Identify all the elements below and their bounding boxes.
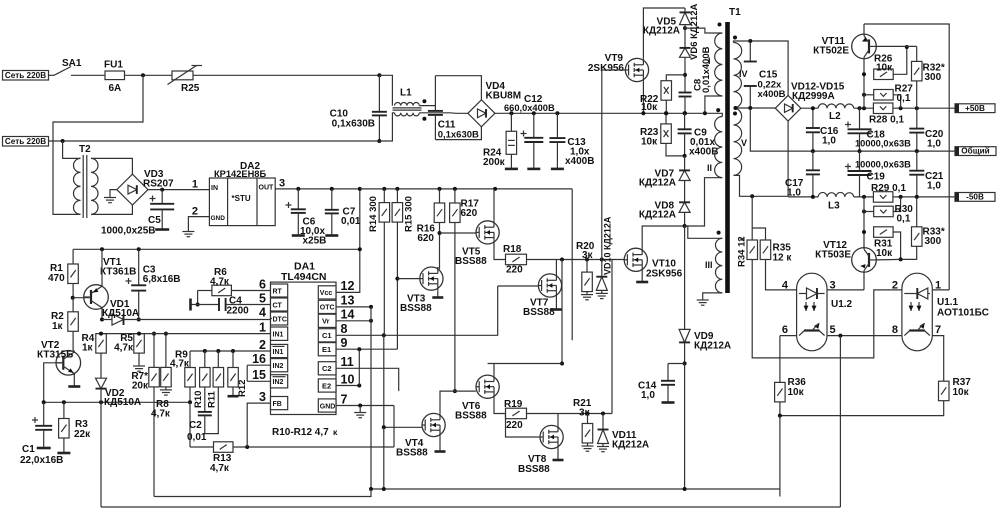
wire windings center tap row xyxy=(734,107,776,109)
wire row to VD11 xyxy=(602,414,604,430)
wire VD3 left vertex to ground xyxy=(110,190,117,194)
svg-text:x400В: x400В xyxy=(758,89,786,100)
svg-text:7: 7 xyxy=(935,324,941,336)
label VT7 BSS88 xyxy=(523,298,555,319)
wire R5 to ground xyxy=(138,353,140,362)
DA1 pin number 1 xyxy=(259,320,266,334)
wire bus down to VT6 drain row xyxy=(561,260,563,364)
wire VT5 drain to rail xyxy=(493,189,495,221)
diode VD6 КД212А xyxy=(680,48,691,57)
resistor R28 0,1 xyxy=(873,103,893,114)
common bar below VT3 xyxy=(432,296,443,299)
wire VD2 to node row xyxy=(100,389,102,403)
wire VT11 base to R32 riser xyxy=(876,45,916,47)
wire C2 bottom to R11 bottom xyxy=(205,387,219,434)
label T1 xyxy=(729,7,741,18)
common bar below R3 xyxy=(57,452,70,455)
wire VT1 collector down xyxy=(101,308,103,320)
transistor VT8 BSS88 xyxy=(540,425,563,448)
junction VT12 base node xyxy=(899,257,903,261)
label L2 xyxy=(829,111,841,122)
junction R23 top xyxy=(664,111,668,115)
label VT2 КТ315Б xyxy=(37,340,73,361)
optocoupler U1.1 body xyxy=(902,273,932,351)
label R35 12к xyxy=(773,243,793,264)
svg-text:КТ315Б: КТ315Б xyxy=(37,350,73,361)
junction R15 xyxy=(395,187,399,191)
wire to R10 xyxy=(204,351,206,368)
label VT1 КТ361В xyxy=(100,257,136,278)
wire R4 to VD2 xyxy=(100,353,102,378)
svg-text:4: 4 xyxy=(259,305,266,319)
wire jog to L1 lower xyxy=(379,113,394,141)
label C20 1,0 xyxy=(925,129,944,150)
capacitor C10 0,1x630В xyxy=(372,75,387,141)
wire VT2 emitter down xyxy=(73,374,75,386)
svg-text:BSS88: BSS88 xyxy=(455,256,487,267)
svg-text:1000,0x25В: 1000,0x25В xyxy=(101,226,156,237)
label VD6 КД212А (rotated) xyxy=(689,3,700,60)
svg-text:КД2999А: КД2999А xyxy=(792,91,835,102)
ground at DA2 pin 2 xyxy=(182,228,194,237)
junction R36 bottom riser xyxy=(778,414,782,418)
label R12 (rotated) xyxy=(237,380,248,397)
junction C1 xyxy=(42,400,46,404)
wire AC2 to C10 xyxy=(49,140,380,142)
junction VD9 line on bus xyxy=(683,487,687,491)
label C10 0,1x630В xyxy=(330,109,375,130)
svg-text:1к: 1к xyxy=(82,343,94,354)
svg-text:T1: T1 xyxy=(729,7,741,18)
transformer T1 winding II xyxy=(715,117,723,178)
label R14 300 (rotated) xyxy=(368,196,379,232)
label VT8 BSS88 xyxy=(518,454,550,475)
svg-text:T2: T2 xyxy=(79,144,91,155)
wire row to R20 xyxy=(586,260,588,273)
junction R27 left xyxy=(862,93,866,97)
wire R34/R35 tops tie xyxy=(752,228,765,240)
wire VT7 drain up xyxy=(555,260,557,275)
junction R12 top xyxy=(231,349,235,353)
transistor VT11 КТ502Е (pnp) xyxy=(852,34,877,59)
wire AC1 tap down to T2 primary bottom xyxy=(53,75,143,214)
svg-text:АОТ101БС: АОТ101БС xyxy=(937,308,989,319)
choke L1 lower winding xyxy=(395,113,420,116)
junction C6 xyxy=(296,187,300,191)
wire R14 bus down to pin8 row xyxy=(383,222,385,335)
U1.2 pin 5 xyxy=(830,324,836,336)
wire rail to R24 xyxy=(510,113,512,131)
junction Vcc riser / main rail xyxy=(358,187,362,191)
wire bus to VT4 gate (overlap fix) xyxy=(398,426,423,428)
junction R5 top xyxy=(137,332,141,336)
svg-text:22,0x16В: 22,0x16В xyxy=(20,455,63,466)
transistor VT5 BSS88 xyxy=(476,221,499,244)
junction GND stub xyxy=(358,404,362,408)
label R7* 20к xyxy=(131,371,149,392)
DA1 pin number 15 xyxy=(252,368,266,382)
label R37 10к xyxy=(953,377,972,398)
wire R6 left xyxy=(198,290,212,292)
bridge rectifier VD4 KBU8M xyxy=(468,100,495,127)
DA2 pin 2 xyxy=(192,206,198,218)
wire VT8 drain up xyxy=(557,414,559,426)
svg-text:*STU: *STU xyxy=(232,194,251,203)
wire control rail right section xyxy=(360,188,572,190)
label C16 1,0 xyxy=(820,126,839,147)
label C14 1,0 xyxy=(638,381,657,402)
label U1.1 АОТ101БС xyxy=(937,297,989,319)
junction C3 bottom xyxy=(137,318,141,322)
ground below VD11 xyxy=(597,444,609,452)
svg-text:КД212А: КД212А xyxy=(639,210,676,221)
wire to R12 xyxy=(232,351,234,368)
wire rail to R14 xyxy=(383,189,385,203)
junction C5 xyxy=(160,188,164,192)
svg-text:IN: IN xyxy=(211,185,218,192)
diode VD9 КД212А xyxy=(679,329,690,342)
U1.1 pin 2 xyxy=(892,280,898,292)
choke L1 core xyxy=(393,108,422,110)
junction winding I bottom on rail xyxy=(703,111,707,115)
capacitor C18 10000,0x63В xyxy=(845,108,872,133)
junction C8 on rail xyxy=(683,111,687,115)
wire R1 to node xyxy=(72,284,74,298)
svg-text:8: 8 xyxy=(341,322,348,336)
ground at DA1 pin 7 xyxy=(354,406,366,418)
label VD12-VD15 КД2999А xyxy=(791,82,845,103)
polarity dot L1 upper xyxy=(422,99,426,103)
svg-text:IN2: IN2 xyxy=(273,363,284,370)
wire winding IV top to VD12 bridge xyxy=(734,41,789,95)
wire pin4 stub xyxy=(271,318,273,320)
svg-text:TL494CN: TL494CN xyxy=(281,271,327,283)
svg-text:6,8x16В: 6,8x16В xyxy=(143,274,181,285)
svg-text:R10-R12 4,7: R10-R12 4,7 xyxy=(272,427,329,438)
svg-text:10к: 10к xyxy=(641,137,658,148)
label R26 10к xyxy=(874,54,893,74)
svg-text:3к: 3к xyxy=(582,250,594,261)
ground below R5 xyxy=(133,362,145,371)
DA1 pin box IN2 xyxy=(271,359,288,372)
transformer T1 core xyxy=(725,22,730,293)
wire U1.1 pin 1 to riser xyxy=(932,289,949,291)
junction VT9 source on rail xyxy=(641,111,645,115)
wire DA2 output rail xyxy=(275,188,360,190)
wire R30 right riser xyxy=(893,197,900,212)
wire base node to R32 xyxy=(916,46,918,61)
svg-text:U1.1: U1.1 xyxy=(937,297,959,308)
wire low node row xyxy=(44,401,190,403)
resistor R27 0,1 xyxy=(874,90,894,101)
capacitor C15 0,22x x400В xyxy=(744,41,757,86)
optocoupler U1.1 LED xyxy=(904,288,930,299)
wire node to winding III top xyxy=(685,226,723,238)
label U1.2 xyxy=(831,299,853,310)
svg-text:DTC: DTC xyxy=(273,316,287,323)
svg-text:1к: 1к xyxy=(52,321,64,332)
label R33* 300 xyxy=(923,227,945,248)
svg-text:+50В: +50В xyxy=(965,104,985,113)
wire R24 to bar xyxy=(510,154,512,168)
wire R32 to rail bus xyxy=(916,81,918,108)
wire R15 bus down xyxy=(396,222,398,349)
junction R11 top xyxy=(216,349,220,353)
ground below VD10 xyxy=(596,290,608,298)
wire VT11 emitter up xyxy=(863,24,865,34)
wire bridge to L2 xyxy=(801,107,818,109)
wire to VD5 xyxy=(684,8,686,12)
VT1 emitter arrow xyxy=(93,288,98,292)
capacitor C17 1,0 xyxy=(806,151,820,174)
svg-text:CT: CT xyxy=(273,302,283,309)
optocoupler U1.2 body xyxy=(797,273,827,351)
diode VD11 КД212А xyxy=(598,430,609,444)
junction AC1/T2 tap xyxy=(141,73,145,77)
svg-text:FU1: FU1 xyxy=(104,60,123,71)
wire rail to R15 xyxy=(396,189,398,203)
resistor R22 10к xyxy=(661,81,672,101)
wire node to R3 xyxy=(63,402,65,418)
svg-text:2: 2 xyxy=(259,338,266,352)
label DA1 TL494CN xyxy=(281,261,327,284)
wire E1/E2 bus xyxy=(358,349,360,385)
resistor R26 10к xyxy=(874,69,894,80)
wire row to R9 xyxy=(189,351,191,368)
U1.1 pin 1 xyxy=(935,280,941,292)
junction C9 top xyxy=(683,111,687,115)
svg-text:1,0: 1,0 xyxy=(927,181,941,192)
svg-text:1: 1 xyxy=(259,320,266,334)
wire row to R8 xyxy=(165,334,167,368)
junction R4 top xyxy=(99,332,103,336)
svg-text:IN1: IN1 xyxy=(273,331,284,338)
resistor R32* 300 xyxy=(912,61,923,81)
junction R3 xyxy=(62,400,66,404)
junction VT7 drain bus xyxy=(560,258,564,262)
junction VT4 gate xyxy=(382,425,386,429)
svg-text:Общий: Общий xyxy=(961,146,989,156)
svg-text:GND: GND xyxy=(211,215,226,222)
label C11 0,1x630В xyxy=(438,120,479,141)
svg-text:R19: R19 xyxy=(504,399,523,410)
wire VT3 source xyxy=(437,290,439,296)
wire Общий rail xyxy=(750,108,955,151)
wire to R11 xyxy=(217,351,219,368)
wire R23 to C9 node xyxy=(666,143,685,156)
svg-text:BSS88: BSS88 xyxy=(400,303,432,314)
transformer T2 core xyxy=(83,155,87,218)
svg-text:OTC: OTC xyxy=(320,305,335,312)
svg-text:E1: E1 xyxy=(322,345,331,354)
voltage regulator DA2 КР142ЕН8Б body xyxy=(209,178,275,226)
DA1 pin number 2 xyxy=(259,338,266,352)
wire R33 to base node xyxy=(901,246,917,259)
svg-text:0,1: 0,1 xyxy=(897,214,911,225)
junction VT12 collector chain on -50 rail xyxy=(862,195,866,199)
svg-text:10к: 10к xyxy=(788,387,805,398)
resistor R21 3к xyxy=(582,424,593,444)
wire tap to winding I top xyxy=(685,28,722,33)
net input terminal Сеть 220В (bottom) xyxy=(3,137,49,147)
ground below winding III xyxy=(697,297,709,305)
transistor VT9 2SK956 xyxy=(625,58,648,81)
wire OTC/Vr bus down to bottom xyxy=(370,307,372,489)
svg-text:КД510А: КД510А xyxy=(104,397,141,408)
polarity dot winding II xyxy=(716,108,720,112)
wire C1 to bar xyxy=(43,430,45,447)
common bar below R12 xyxy=(228,395,239,398)
resistor R7* 20к xyxy=(149,367,160,387)
junction C20 bus xyxy=(915,106,919,110)
wire rail to VT1 emitter xyxy=(101,249,103,286)
wire C21 bottom xyxy=(916,175,918,197)
svg-text:КД212А: КД212А xyxy=(694,341,731,352)
junction R9 bottom xyxy=(188,400,192,404)
U1.1 pin 7 xyxy=(935,324,941,336)
wire VD6 to C8 xyxy=(684,57,686,91)
svg-text:14: 14 xyxy=(341,308,355,322)
diode VD8 КД212А xyxy=(679,202,690,212)
capacitor C9 0,01x x400В xyxy=(678,113,692,133)
bridge rectifier VD12-VD15 КД2999А xyxy=(775,95,801,121)
svg-text:R11: R11 xyxy=(207,390,218,408)
wire C15 bottom xyxy=(749,86,751,108)
wire bottom bus 3 xyxy=(101,506,840,508)
transformer T1 winding V xyxy=(734,108,742,175)
label C13 1,0x x400В xyxy=(565,137,594,167)
wire R16 node to VT5 gate xyxy=(440,232,477,234)
svg-text:4,7к: 4,7к xyxy=(151,409,171,420)
junction VD11 xyxy=(601,412,605,416)
label winding V xyxy=(741,138,747,148)
svg-text:300: 300 xyxy=(925,72,942,83)
resistor R19 220 xyxy=(506,408,527,419)
svg-text:КТ502Е: КТ502Е xyxy=(813,46,849,57)
svg-text:IN2: IN2 xyxy=(273,379,284,386)
optocoupler U1.1 light arrows xyxy=(910,302,912,311)
svg-text:10к: 10к xyxy=(953,387,970,398)
capacitor C11 0,1x630В xyxy=(428,111,443,115)
svg-text:L1: L1 xyxy=(400,88,412,99)
transistor VT6 BSS88 xyxy=(476,375,499,398)
svg-text:6: 6 xyxy=(259,277,266,291)
resistor R9 4,7к xyxy=(185,368,196,388)
DA1 pin box C1 xyxy=(318,329,336,342)
U1.2 pin 6 xyxy=(782,324,788,336)
label VT4 BSS88 xyxy=(396,438,428,459)
DA1 pin box C2 xyxy=(318,362,336,375)
svg-text:2: 2 xyxy=(892,280,898,292)
label R15 300 (rotated) xyxy=(404,196,415,232)
DA1 pin box IN1 xyxy=(271,327,288,340)
resistor R6 4,7к xyxy=(212,285,232,296)
wire riser to VT9 gate xyxy=(601,70,603,260)
svg-text:1: 1 xyxy=(192,179,198,191)
svg-text:к: к xyxy=(333,427,338,437)
svg-text:470: 470 xyxy=(48,273,65,284)
transformer T1 winding IV xyxy=(734,43,742,109)
svg-text:10000,0x63В: 10000,0x63В xyxy=(855,160,911,170)
svg-text:620: 620 xyxy=(417,233,434,244)
label C8 value (rotated) xyxy=(701,46,712,93)
VT12 emitter arrow xyxy=(860,264,865,268)
wire pin 7 GND xyxy=(336,405,394,407)
label C21 1,0 xyxy=(925,171,944,192)
label VD9 КД212А xyxy=(694,331,731,352)
label R11 (rotated) xyxy=(207,390,218,408)
DA1 pin number 5 xyxy=(259,291,266,305)
label C3 6,8x16В xyxy=(143,265,181,286)
optocoupler U1.1 phototransistor xyxy=(904,323,930,336)
DA1 pin number 13 xyxy=(341,294,355,308)
wire VT12 collector chain xyxy=(863,197,865,248)
label R36 10к xyxy=(788,377,807,398)
resistor R36 10к xyxy=(775,382,786,402)
svg-text:КД212А: КД212А xyxy=(643,26,680,37)
label VD11 КД212А xyxy=(612,430,649,451)
capacitor C1 22,0x16В xyxy=(32,402,52,430)
transistor VT7 BSS88 xyxy=(538,274,561,297)
svg-text:220: 220 xyxy=(506,420,523,431)
svg-text:BSS88: BSS88 xyxy=(518,464,550,475)
wire pin15/16 tie xyxy=(246,365,248,381)
svg-text:V: V xyxy=(741,138,747,148)
label R29 0,1 xyxy=(871,183,906,194)
svg-text:660,0x400В: 660,0x400В xyxy=(504,103,555,113)
svg-text:1,0: 1,0 xyxy=(641,390,655,401)
capacitor C4 2200 xyxy=(198,298,272,311)
junction R27 right riser xyxy=(899,106,903,110)
svg-text:7: 7 xyxy=(341,392,348,406)
label C15 0,22x x400В xyxy=(758,70,786,101)
wire row to R21 xyxy=(587,414,589,424)
svg-text:U1.2: U1.2 xyxy=(831,299,853,310)
svg-text:11: 11 xyxy=(341,355,354,369)
wire rail to R1 xyxy=(72,249,74,264)
junction C3 on rail xyxy=(137,247,141,251)
svg-text:КД510А: КД510А xyxy=(102,308,139,319)
ground below R8 xyxy=(160,387,172,395)
svg-text:3: 3 xyxy=(279,178,285,190)
transistor VT10 2SK956 xyxy=(624,248,647,271)
DA2 pin names xyxy=(211,185,275,223)
junction winding IV/V tap xyxy=(734,106,738,110)
capacitor C7 0,01 xyxy=(325,189,339,214)
label C17 1,0 xyxy=(785,178,804,199)
choke L1 upper winding xyxy=(395,103,420,106)
label R32* 300 xyxy=(923,63,945,84)
wire T2 secondary top to VD3 xyxy=(91,158,132,174)
wire winding V bottom to -50 rail xyxy=(734,175,789,196)
svg-text:КД212А: КД212А xyxy=(639,178,676,189)
junction pin13 bus xyxy=(369,305,373,309)
junction FB riser xyxy=(245,445,249,449)
junction C15 top xyxy=(748,39,752,43)
wire U1.2 pin 6 to R36 xyxy=(780,335,797,337)
resistor R24 200к xyxy=(506,131,516,154)
svg-text:E2: E2 xyxy=(322,381,331,390)
wire R13 right riser xyxy=(393,406,395,448)
junction C13 xyxy=(555,111,559,115)
label T2 xyxy=(79,144,91,155)
wire R27 right riser xyxy=(893,95,900,108)
svg-text:10: 10 xyxy=(341,372,355,386)
label R5 4,7к xyxy=(114,333,134,354)
svg-text:KBU8M: KBU8M xyxy=(486,91,522,102)
wire R6/C4 tie xyxy=(197,291,199,305)
output terminal Общий xyxy=(955,146,996,156)
